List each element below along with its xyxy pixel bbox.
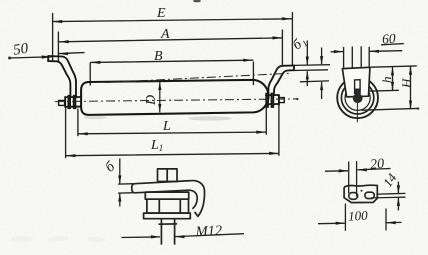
svg-text:A: A	[160, 27, 170, 42]
svg-text:20: 20	[370, 157, 385, 173]
svg-text:60: 60	[382, 31, 397, 47]
svg-text:H: H	[399, 78, 414, 89]
svg-text:D: D	[144, 95, 159, 106]
svg-text:E: E	[156, 6, 166, 21]
svg-text:М12: М12	[194, 223, 222, 240]
svg-text:100: 100	[348, 208, 369, 224]
svg-text:L: L	[162, 119, 171, 134]
svg-text:h: h	[379, 77, 394, 84]
svg-text:50: 50	[12, 41, 30, 59]
svg-text:B: B	[154, 49, 163, 64]
